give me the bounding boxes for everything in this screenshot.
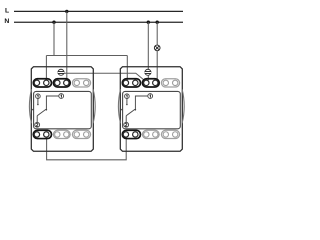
S1 fixing screw: [58, 69, 64, 75]
wire: drop into left device terminal 1: [45, 56, 47, 81]
S2 terminal slot bottom-1: [122, 130, 140, 138]
S1 internal contact pin 1 (top-left): [36, 94, 41, 99]
svg-text:N: N: [4, 18, 9, 25]
S1 terminal slot bottom-2 (gray): [53, 130, 70, 138]
wire: lamp to right device terminal: [156, 51, 158, 81]
S1 right claw: [93, 89, 95, 123]
S1 inner panel: [34, 91, 92, 128]
S1 terminal slot top-1: [33, 79, 51, 87]
wire: N supply line: [14, 21, 183, 23]
S1 internal contact pin 1 (top-right): [59, 94, 64, 99]
wire: L drop to left switch terminal: [66, 11, 68, 80]
S1 switch lever: [37, 109, 46, 115]
S1 internal contact pin 2 (bottom): [35, 122, 40, 127]
S2 terminal slot top-1: [122, 79, 140, 87]
S2 fixing screw: [145, 69, 151, 75]
switch device S2 (right): [118, 67, 184, 152]
junction dot on L line (x=66.8): [65, 10, 68, 13]
wire: N drop to lamp: [156, 22, 158, 45]
S1 left claw: [29, 89, 31, 123]
S1 terminal slot top-3 (unused, gray): [72, 79, 90, 87]
S2 switch lever: [126, 109, 135, 115]
switch device S1 (left): [29, 67, 95, 152]
wire: glow-lamp link from left device screw to right device terminal: [64, 73, 147, 82]
junction dot on N line (x=148): [147, 21, 150, 24]
junction dot on N line (x=54): [52, 21, 55, 24]
lamp E1: [154, 45, 160, 51]
S1 body: [31, 67, 93, 152]
S2 internal contact pin 1 (top-left): [125, 94, 130, 99]
wire: bottom link left device to right device: [47, 137, 127, 160]
S1 terminal slot bottom-1: [33, 130, 51, 138]
S1 terminal slot top-2: [53, 79, 70, 87]
S2 terminal slot top-3 (gray): [161, 79, 179, 87]
S2 terminal slot top-2: [142, 79, 159, 87]
wire: drop into right device terminal 1: [126, 56, 128, 81]
S1 terminal slot bottom-3 (gray): [72, 130, 90, 138]
S1 terminal top-2 circles: [55, 80, 60, 85]
wire: horizontal link between devices: [46, 55, 127, 57]
svg-text:L: L: [5, 8, 9, 15]
wire: N drop to right device terminal: [147, 22, 149, 80]
wire: N drop to horizontal link: [53, 22, 55, 55]
S2 terminal slot bottom-3 (gray): [161, 130, 179, 138]
S2 body: [120, 67, 182, 152]
junction dot on N line (x=156.5): [156, 21, 159, 24]
S2 inner panel: [123, 91, 181, 128]
S2 left claw: [118, 89, 120, 123]
wire: L supply line: [14, 10, 183, 12]
S2 right claw: [182, 89, 184, 123]
S2 terminal slot bottom-2 (gray): [142, 130, 159, 138]
S2 internal contact pin 1 (top-right): [148, 94, 153, 99]
S2 internal contact pin 2 (bottom): [124, 122, 129, 127]
S1 terminal top-1 circles: [34, 80, 39, 85]
